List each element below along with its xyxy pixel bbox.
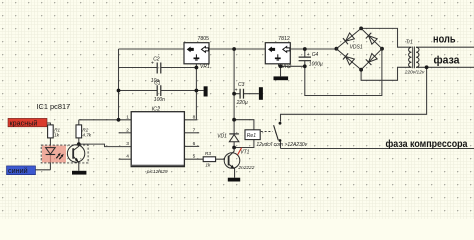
svg-text:4.7k: 4.7k [82,132,91,137]
junction VD1 / Re1 bottom / VT1 collector [232,146,236,150]
diode bridge top-right diode [366,33,377,44]
svg-text:3: 3 [126,141,129,147]
transformer Tr1 [404,40,425,76]
svg-text:ноль: ноль [433,33,456,45]
wire R2 top stub [78,120,80,125]
ground bar below VR2 [274,76,289,80]
svg-text:+: + [151,61,154,67]
junction C3 tap [232,92,236,96]
svg-text:VDS1: VDS1 [350,44,363,50]
svg-text:1000µ: 1000µ [309,61,323,67]
junction bridge left corner [335,47,339,51]
wire faza line [416,66,474,68]
resistor R2 [76,125,92,138]
wire VR2 gnd row [279,64,305,77]
svg-text:IC1 pc817: IC1 pc817 [37,102,71,111]
svg-text:C1: C1 [154,81,161,87]
svg-text:+: + [235,88,238,94]
wire krasny to R1 [10,123,50,125]
wire VR1 ground stub and gnd rail down to pin8 [184,64,196,120]
svg-text:красный: красный [10,118,38,127]
wire siniy row [8,169,50,171]
wire top rail 7812 to bridge [291,48,336,50]
wire IC2 pin4 stub [119,158,132,160]
diode bridge bottom-left diode [343,53,354,64]
svg-text:R3: R3 [205,151,211,157]
svg-text:12vdc/l com >12A230v: 12vdc/l com >12A230v [256,142,307,148]
svg-text:220v/12v: 220v/12v [404,69,425,75]
svg-text:синий: синий [8,166,28,175]
junction VR2 ground [279,64,283,68]
svg-text:7805: 7805 [198,36,210,42]
wire faza kompressora line [281,148,474,150]
wire 12V rail [233,49,235,134]
wire C4 branch verticals [304,49,306,66]
svg-text:VR1: VR1 [200,64,210,70]
svg-text:фаза компрессора: фаза компрессора [386,138,468,150]
svg-text:1k: 1k [205,162,211,168]
junction C4 bottom [303,64,307,68]
wire C1 row [119,90,204,92]
svg-text:4: 4 [126,154,129,160]
svg-text:100n: 100n [154,97,165,103]
junction VDD rail to pin 1 [117,118,121,122]
svg-text:VD1: VD1 [217,133,227,139]
capacitor C2 10u [151,56,161,84]
wire contact bottom stub [280,142,282,149]
wire IC2 pin1 row [79,119,131,121]
diode bridge top-left diode [343,33,354,44]
wire top rail between regulators [209,48,265,50]
LED of IC1 [46,148,64,160]
junction VD1 / Re1 top [232,118,236,122]
svg-text:pic12f629: pic12f629 [146,169,168,175]
wire gnd return to bridge minus [305,49,382,96]
phototransistor of IC1 [67,144,84,171]
svg-text:Tr1: Tr1 [406,40,413,46]
junction 12V tap on top rail [232,47,236,51]
ground bar under VT1 [228,178,240,182]
relay contact [274,122,282,142]
wire noll line [416,46,474,48]
junction bridge bottom corner [359,68,363,72]
svg-text:C2: C2 [153,56,160,62]
wire IC2 pin3 jog to optocoupler [79,144,131,147]
node krasny (red wire label) [8,118,47,127]
junction C1 left rail [117,89,121,93]
wire bridge top corner to transformer [361,28,411,47]
wire IC2 pin7 stub [184,132,199,134]
IC2 pic12f629 [126,107,195,175]
junction bridge top corner [359,27,363,31]
resistor R3 [203,151,215,168]
svg-text:8: 8 [193,114,196,120]
wire C2 row [119,67,197,69]
svg-text:220µ: 220µ [236,100,248,106]
svg-text:C4: C4 [312,52,319,58]
svg-text:2n2222: 2n2222 [237,165,254,171]
svg-text:7: 7 [193,127,196,133]
wire R2 bottom stub [78,138,80,144]
svg-text:7812: 7812 [278,36,290,42]
svg-text:2: 2 [126,127,129,133]
svg-text:1: 1 [126,114,129,120]
ground bar near C3 [259,87,263,100]
svg-text:6: 6 [193,141,196,147]
svg-text:IC2: IC2 [152,107,160,113]
wire bridge bottom corner to transformer [361,67,411,80]
node siniy (blue wire label) [7,166,36,175]
wire relay coil top link [234,120,254,130]
wire top +rail left section [119,48,185,50]
wire IC2 pin5 to R3 to VT1 base [184,158,225,160]
ground bar under phototransistor [72,171,86,175]
wire C3 tap [234,93,259,95]
svg-text:VR2: VR2 [282,64,292,70]
capacitor C3 220u [235,82,248,106]
wire IC2 pin2 stub [119,132,132,134]
capacitor C4 1000u [299,52,323,67]
junction faza tap [425,65,429,69]
optocoupler IC1 dashed box with red tint [41,145,88,163]
junction phototransistor collector / R2 / pin 3 [77,142,81,146]
svg-text:C3: C3 [238,82,245,88]
diode bridge bottom-right diode [366,54,377,66]
wire faza down to relay contact [281,67,427,121]
svg-text:VT1: VT1 [240,150,249,156]
svg-text:5: 5 [193,154,196,160]
wire LED cathode down [49,155,51,170]
svg-text:+: + [307,52,310,58]
junction VR1 ground / C2 [195,66,199,70]
svg-text:1k: 1k [54,132,60,137]
regulator VR2 7812 [265,36,291,70]
svg-text:фаза: фаза [434,55,461,67]
relay coil Re1 [245,130,308,148]
junction C4 top [303,47,307,51]
svg-text:Re1: Re1 [247,133,256,139]
ground bar near C1 [204,86,208,96]
transistor VT1 2n2222 [224,148,255,178]
wire left VDD rail [118,49,120,120]
diode VD1 [217,133,239,141]
resistor R1 [48,125,61,138]
junction C1 right / ground [195,89,199,93]
wire relay coil bottom link [234,140,254,148]
diode bridge VDS1 [336,28,382,69]
junction bridge right corner [380,47,384,51]
capacitor C1 100n [154,81,165,103]
wire IC2 pin6 stub [184,145,199,147]
regulator VR1 7805 [184,36,210,70]
wire R1 bottom to LED [49,138,51,148]
wire VD1 bottom segment [233,142,235,148]
